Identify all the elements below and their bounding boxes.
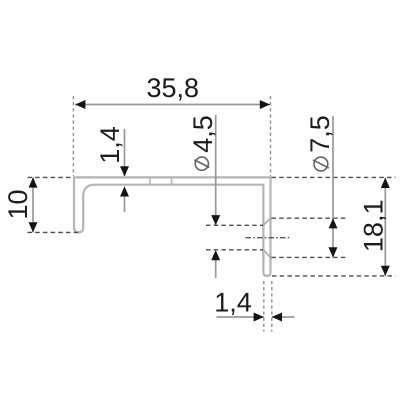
svg-text:1,4: 1,4 [95,126,125,164]
svg-text:10: 10 [3,189,33,219]
svg-text:35,8: 35,8 [147,73,200,103]
svg-text:18,1: 18,1 [359,200,389,253]
svg-text:4,5: 4,5 [188,115,218,153]
svg-text:1,4: 1,4 [214,288,252,318]
svg-text:7,5: 7,5 [305,115,335,153]
